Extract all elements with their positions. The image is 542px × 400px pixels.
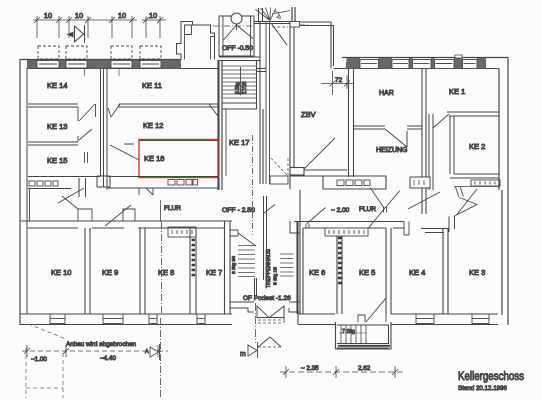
svg-text:OFF -0.50: OFF -0.50	[222, 45, 253, 52]
property dash-dot line	[299, 24, 310, 26]
svg-text:KE 11: KE 11	[142, 81, 162, 90]
corridor bottom block	[270, 158, 288, 184]
stairwell treads right	[280, 254, 294, 276]
svg-text:HAR: HAR	[379, 90, 394, 97]
svg-text:7 Stg: 7 Stg	[342, 329, 355, 335]
stairwell bottom wall	[230, 302, 300, 312]
right wing top wall	[342, 58, 508, 69]
lower exit stair box	[336, 322, 392, 349]
annex dimension line	[22, 345, 168, 357]
corridor right of stair with door	[254, 22, 290, 185]
annex door triangle	[145, 344, 160, 360]
wall KE6/KE5 chimney	[337, 236, 342, 314]
stairwell center wall	[255, 196, 267, 295]
wall HEIZUNG right / KE1 left	[422, 69, 433, 215]
door KE1 swing	[433, 114, 449, 128]
svg-text:KE 12: KE 12	[143, 121, 163, 130]
exit door symbol m	[240, 337, 281, 358]
wall ZBV/HAR	[349, 69, 354, 178]
ZBV bottom wall with windows	[290, 138, 430, 229]
corridor pier KE10-KE9	[62, 196, 92, 221]
dashed annex outline	[26, 324, 66, 398]
window well dashed box 4	[140, 46, 161, 59]
right outer wall	[499, 58, 508, 326]
svg-text:KE 2: KE 2	[469, 142, 485, 151]
wall KE4/KE3	[443, 228, 448, 314]
section dash-dot line in KE17	[252, 135, 254, 235]
cellar window bottom KE7	[197, 314, 205, 324]
stair block walls	[219, 22, 263, 190]
wire top dimension line left	[33, 16, 137, 76]
stair door jamb pillar	[358, 315, 365, 322]
wall KE10/KE9	[85, 228, 90, 314]
wall KE2 bottom	[450, 174, 500, 186]
svg-text:2.62: 2.62	[358, 365, 371, 372]
porch wall top stubs	[259, 8, 263, 22]
outdoor stair fan right of porch	[256, 8, 281, 21]
svg-text:KE 10: KE 10	[51, 268, 71, 277]
KE3 entrance corner	[408, 189, 477, 233]
wall KE14/KE13 with door	[28, 104, 96, 121]
window box top wall 2	[66, 61, 87, 69]
highlight red box KE16	[139, 140, 219, 178]
wall KE7 right / stairwell left	[225, 221, 231, 314]
cellar window bottom KE3	[472, 314, 489, 324]
door triangles below stairwell	[256, 303, 285, 343]
wall piers left wing	[27, 60, 181, 69]
svg-text:17/28: 17/28	[242, 81, 248, 94]
tick marks in stair box	[339, 332, 367, 334]
window well dashed box 2	[66, 46, 87, 59]
window well dashed box 1	[38, 46, 59, 59]
wall HAR/HEIZUNG with door	[354, 126, 422, 147]
right wing corridor bottom wall	[294, 222, 404, 229]
door KE12 swing	[108, 104, 120, 117]
svg-text:ZBV: ZBV	[301, 110, 316, 119]
wall KE13/KE15 with door	[28, 129, 92, 145]
corridor chimney block	[168, 227, 196, 237]
wall KE16 bottom with cellar windows	[108, 177, 218, 196]
svg-text:~ 2.00: ~ 2.00	[331, 207, 350, 214]
corridor landing line	[257, 69, 266, 72]
svg-text:FLUR: FLUR	[164, 205, 181, 212]
window box right wing 3	[435, 60, 455, 69]
window box right wing 1	[360, 60, 379, 69]
svg-text:OFF - 2.50: OFF - 2.50	[222, 207, 255, 214]
wall KE6 left	[298, 221, 303, 324]
dimension 72	[321, 71, 354, 95]
bottom wall left wing	[20, 314, 232, 325]
svg-text:KE 8: KE 8	[158, 268, 174, 277]
stairwell treads left	[238, 246, 255, 277]
window well dashed box 3	[111, 46, 132, 59]
corridor walls left column	[101, 68, 108, 190]
door swing lower stair	[366, 298, 386, 322]
window box top wall 4	[140, 61, 161, 69]
svg-text:KE 15: KE 15	[47, 156, 67, 165]
window box right wing 4	[463, 60, 478, 69]
cellar window bottom KE9	[103, 314, 123, 324]
svg-text:KE 7: KE 7	[206, 268, 222, 277]
svg-text:Stand 20.12.1996: Stand 20.12.1996	[458, 385, 507, 392]
room ZBV walls	[290, 21, 347, 189]
corridor left inner wall	[29, 189, 31, 221]
pier bump above	[455, 55, 462, 58]
svg-text:~4.40: ~4.40	[100, 355, 116, 362]
svg-text:10: 10	[44, 11, 52, 20]
svg-text:KE 17: KE 17	[229, 138, 249, 147]
entrance porch with cross	[213, 13, 256, 56]
svg-text:5 Stg 15: 5 Stg 15	[273, 267, 279, 285]
window box top wall 1	[37, 61, 59, 69]
svg-text:KE 3: KE 3	[469, 268, 485, 277]
svg-text:KE 6: KE 6	[309, 268, 325, 277]
bottom wall right wing	[298, 314, 498, 325]
stair block upper treads	[222, 66, 256, 98]
svg-text:Kellergeschoss: Kellergeschoss	[458, 371, 524, 383]
wall KE12/KE16 under red	[139, 140, 218, 142]
svg-text:KE 4: KE 4	[409, 268, 425, 277]
outer wall top-left wing	[20, 60, 219, 326]
svg-text:10: 10	[149, 11, 157, 20]
svg-text:KE 9: KE 9	[102, 268, 118, 277]
svg-text:HEIZUNG: HEIZUNG	[376, 147, 408, 154]
corridor pier KE9-KE8	[105, 205, 135, 226]
cellar window bottom KE8	[149, 314, 157, 324]
wall middle column right side	[218, 60, 226, 190]
svg-text:KE 5: KE 5	[359, 268, 375, 277]
corridor bottom wall left wing	[21, 221, 232, 228]
entrance bay stepped wall	[177, 22, 215, 60]
svg-text:KE 14: KE 14	[47, 81, 67, 90]
wall KE1/KE2	[447, 112, 499, 174]
wire top dimension line 4	[142, 16, 166, 38]
ZBV wall top bar	[292, 7, 295, 22]
wall KE11/KE12	[119, 104, 218, 116]
svg-text:10: 10	[75, 11, 83, 20]
svg-text:FLUR: FLUR	[359, 206, 376, 213]
svg-text:A: A	[145, 349, 149, 355]
svg-text:OF Podest -1.26: OF Podest -1.26	[243, 295, 291, 302]
svg-text:Anbau wird abgebrochen: Anbau wird abgebrochen	[66, 341, 137, 348]
stairwell right wall	[290, 190, 300, 314]
svg-text:10: 10	[118, 11, 126, 20]
property arrow 1	[272, 11, 290, 15]
corridor pillar right wing 1	[306, 208, 326, 229]
stairwell top-left pillar	[230, 205, 275, 247]
window box right wing 2	[392, 60, 409, 69]
door KE16 swing	[110, 144, 139, 160]
corridor chimney block right wing	[325, 228, 368, 236]
door below KE2	[454, 187, 500, 217]
window box top wall 3	[111, 61, 132, 69]
window box right wing 2b	[413, 60, 432, 69]
wall KE15 bottom with cellar windows	[28, 176, 110, 203]
svg-text:KE 16: KE 16	[144, 154, 164, 163]
svg-text:KE 1: KE 1	[449, 87, 465, 96]
svg-text:6 Stg 36: 6 Stg 36	[231, 256, 237, 274]
section dash-dot through KE8	[161, 222, 162, 398]
wall KE9/KE8	[140, 228, 145, 314]
wall piers right wing	[347, 58, 487, 69]
cellar window bottom KE4	[416, 314, 434, 324]
svg-text:KE 13: KE 13	[47, 122, 67, 131]
cellar window bottom KE10	[50, 314, 65, 324]
north arrow symbol	[67, 25, 85, 43]
wall below porch	[219, 57, 260, 61]
wall KE5/KE4	[386, 228, 391, 314]
bottom dimension line	[280, 366, 404, 378]
svg-text:TREPPENHAUS: TREPPENHAUS	[266, 249, 272, 288]
svg-text:~1.00: ~1.00	[31, 356, 47, 363]
corridor pillar right wing 2	[384, 207, 410, 236]
svg-text:~ 2.35: ~ 2.35	[301, 365, 319, 372]
wall KE8/KE7 chimney	[190, 228, 196, 314]
svg-text:72: 72	[335, 77, 343, 84]
door KE15 jamb	[85, 152, 88, 163]
svg-text:m: m	[240, 351, 246, 358]
svg-text:6 Stg: 6 Stg	[235, 82, 241, 94]
